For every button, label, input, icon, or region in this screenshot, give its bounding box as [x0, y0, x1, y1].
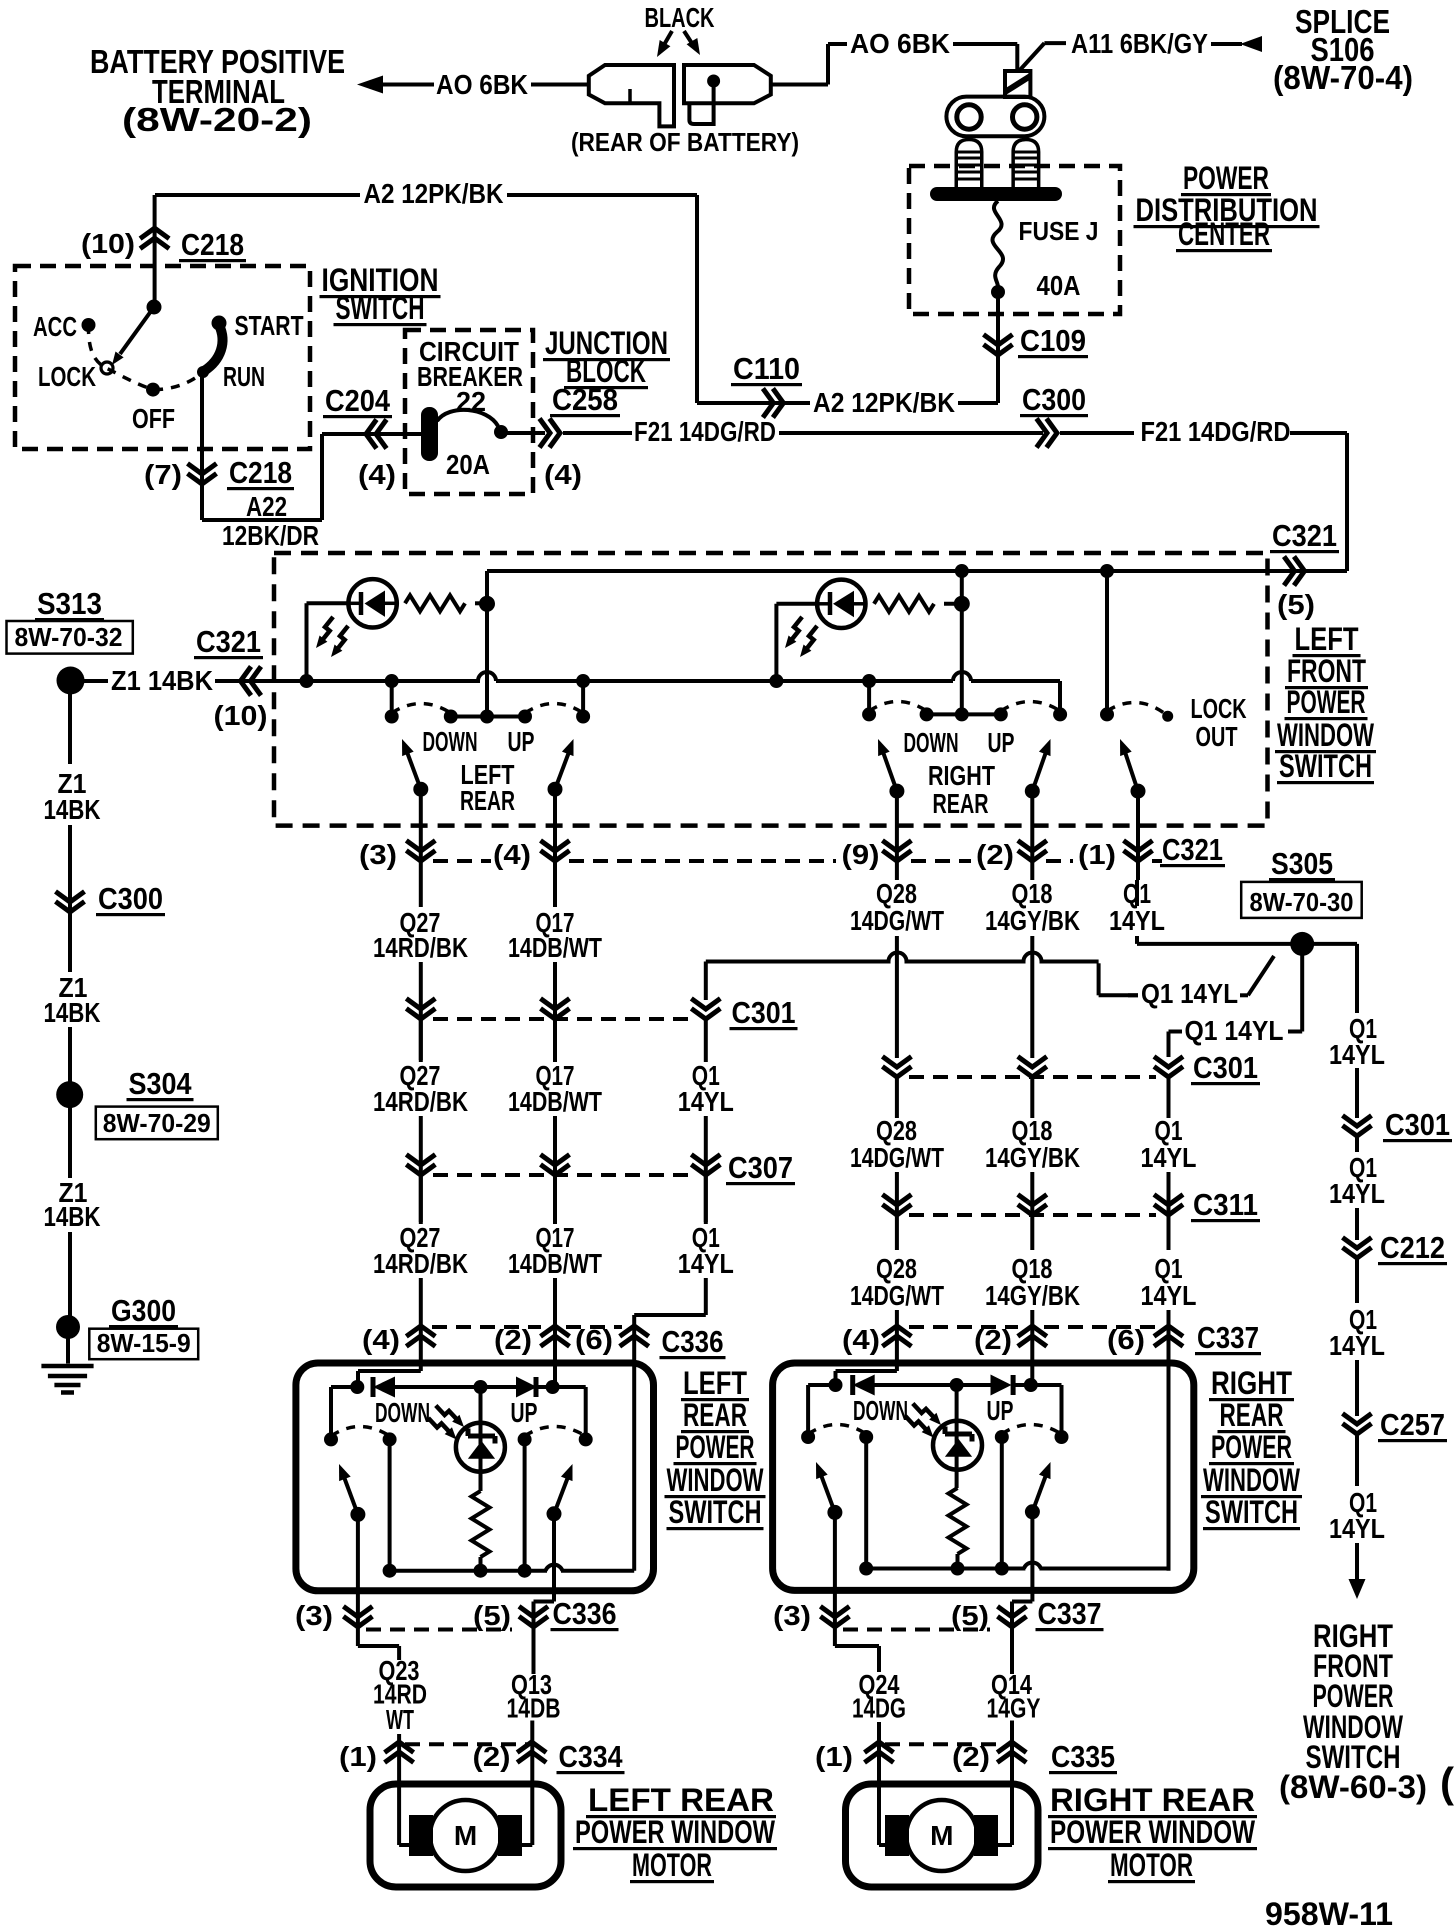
svg-text:LOCK: LOCK: [1191, 693, 1247, 724]
svg-text:14RD/BK: 14RD/BK: [373, 932, 468, 963]
svg-text:RIGHT: RIGHT: [1211, 1365, 1292, 1401]
svg-text:C321: C321: [196, 624, 261, 659]
svg-text:(3): (3): [359, 839, 397, 870]
svg-text:C301: C301: [732, 995, 796, 1030]
svg-text:8W-15-9: 8W-15-9: [97, 1328, 191, 1358]
svg-text:WINDOW: WINDOW: [667, 1462, 765, 1498]
svg-text:A11 6BK/GY: A11 6BK/GY: [1071, 28, 1208, 59]
svg-text:C212: C212: [1380, 1230, 1445, 1265]
svg-text:REAR: REAR: [460, 785, 515, 816]
svg-text:C300: C300: [1022, 382, 1086, 417]
svg-text:14DB/WT: 14DB/WT: [508, 1086, 602, 1117]
svg-text:C204: C204: [325, 383, 391, 418]
svg-text:14GY/BK: 14GY/BK: [985, 1280, 1080, 1311]
svg-text:UP: UP: [988, 727, 1015, 758]
svg-text:REAR: REAR: [1220, 1397, 1284, 1433]
svg-text:12BK/DR: 12BK/DR: [222, 520, 319, 551]
svg-text:14RD/BK: 14RD/BK: [373, 1248, 468, 1279]
svg-text:LOCK: LOCK: [38, 361, 96, 392]
svg-text:M: M: [454, 1820, 477, 1851]
svg-text:FUSE J: FUSE J: [1019, 216, 1099, 246]
svg-text:OUT: OUT: [1196, 721, 1238, 752]
svg-text:AO 6BK: AO 6BK: [436, 69, 528, 100]
svg-text:G300: G300: [111, 1293, 176, 1328]
svg-text:UP: UP: [987, 1395, 1014, 1426]
svg-text:WINDOW: WINDOW: [1203, 1462, 1301, 1498]
svg-text:SWITCH: SWITCH: [669, 1494, 762, 1530]
svg-text:POWER WINDOW: POWER WINDOW: [575, 1814, 776, 1850]
svg-text:14YL: 14YL: [1329, 1178, 1385, 1209]
svg-text:POWER: POWER: [1183, 160, 1269, 196]
svg-text:C311: C311: [1193, 1187, 1258, 1222]
svg-text:POWER: POWER: [1211, 1429, 1292, 1465]
svg-text:(5): (5): [951, 1600, 989, 1631]
svg-text:WT: WT: [386, 1704, 414, 1735]
svg-text:(2): (2): [976, 839, 1014, 870]
svg-text:DOWN: DOWN: [853, 1395, 908, 1426]
svg-text:(10): (10): [81, 228, 135, 259]
svg-text:14DB/WT: 14DB/WT: [508, 932, 602, 963]
svg-text:14BK: 14BK: [44, 794, 101, 825]
svg-text:8W-70-30: 8W-70-30: [1250, 887, 1354, 917]
svg-text:14DB: 14DB: [507, 1693, 561, 1724]
svg-text:AO 6BK: AO 6BK: [850, 28, 950, 59]
svg-text:POWER WINDOW: POWER WINDOW: [1050, 1814, 1256, 1850]
svg-text:SWITCH: SWITCH: [336, 290, 425, 326]
svg-text:C258: C258: [552, 382, 618, 417]
svg-text:14DG/WT: 14DG/WT: [850, 1142, 944, 1173]
svg-text:(7): (7): [144, 459, 182, 490]
svg-text:S313: S313: [37, 586, 102, 621]
svg-text:14GY: 14GY: [987, 1693, 1041, 1724]
svg-text:14YL: 14YL: [1141, 1142, 1197, 1173]
svg-text:C301: C301: [1193, 1050, 1258, 1085]
svg-text:40A: 40A: [1037, 270, 1081, 301]
svg-text:MOTOR: MOTOR: [632, 1847, 712, 1883]
svg-text:A22: A22: [246, 491, 287, 522]
svg-text:(4): (4): [544, 459, 582, 490]
svg-text:C335: C335: [1051, 1739, 1115, 1774]
svg-text:(6): (6): [575, 1324, 613, 1355]
svg-text:(9): (9): [842, 839, 880, 870]
svg-text:DOWN: DOWN: [423, 726, 478, 757]
svg-text:C336: C336: [553, 1596, 617, 1631]
svg-text:UP: UP: [508, 726, 535, 757]
svg-text:14BK: 14BK: [44, 997, 101, 1028]
svg-text:(5): (5): [1277, 589, 1315, 620]
svg-text:SWITCH: SWITCH: [1205, 1494, 1298, 1530]
svg-text:(8W-20-2): (8W-20-2): [122, 101, 312, 138]
svg-text:14DG/WT: 14DG/WT: [850, 905, 944, 936]
svg-text:LEFT REAR: LEFT REAR: [588, 1782, 774, 1818]
svg-text:(8W-60-3): (8W-60-3): [1279, 1769, 1427, 1805]
svg-text:RIGHT REAR: RIGHT REAR: [1050, 1782, 1255, 1818]
svg-text:14DB/WT: 14DB/WT: [508, 1248, 602, 1279]
svg-text:Q1 14YL: Q1 14YL: [1141, 978, 1238, 1009]
svg-text:14DG/WT: 14DG/WT: [850, 1280, 944, 1311]
svg-text:(4): (4): [362, 1324, 400, 1355]
svg-text:(1): (1): [815, 1741, 853, 1772]
svg-text:20A: 20A: [446, 449, 490, 480]
svg-text:14YL: 14YL: [1329, 1330, 1385, 1361]
svg-text:958W-11: 958W-11: [1265, 1896, 1393, 1928]
svg-text:C307: C307: [728, 1150, 793, 1185]
svg-text:(4): (4): [493, 839, 531, 870]
svg-text:DOWN: DOWN: [375, 1397, 430, 1428]
svg-text:DOWN: DOWN: [904, 727, 959, 758]
svg-text:UP: UP: [511, 1397, 538, 1428]
svg-text:(6): (6): [1107, 1324, 1145, 1355]
svg-text:C321: C321: [1162, 832, 1223, 867]
svg-text:C109: C109: [1020, 323, 1086, 358]
svg-text:CENTER: CENTER: [1178, 216, 1270, 252]
svg-text:(2): (2): [974, 1324, 1012, 1355]
svg-text:(10): (10): [214, 700, 268, 731]
svg-text:BLACK: BLACK: [645, 2, 715, 33]
svg-text:14GY/BK: 14GY/BK: [985, 905, 1080, 936]
svg-text:C336: C336: [662, 1324, 724, 1359]
svg-text:F21 14DG/RD: F21 14DG/RD: [1141, 416, 1291, 447]
svg-text:A2 12PK/BK: A2 12PK/BK: [364, 178, 504, 209]
svg-text:Q1 14YL: Q1 14YL: [1185, 1015, 1284, 1046]
svg-text:C321: C321: [1272, 518, 1337, 553]
svg-text:M: M: [930, 1820, 953, 1851]
svg-text:14GY/BK: 14GY/BK: [985, 1142, 1080, 1173]
svg-text:C300: C300: [98, 881, 163, 916]
svg-text:C110: C110: [733, 351, 800, 386]
svg-text:14YL: 14YL: [678, 1086, 734, 1117]
svg-text:LEFT: LEFT: [1295, 621, 1359, 657]
svg-text:C218: C218: [229, 455, 292, 490]
svg-text:LEFT: LEFT: [683, 1365, 747, 1401]
svg-text:14YL: 14YL: [678, 1248, 734, 1279]
svg-text:C218: C218: [181, 227, 244, 262]
svg-text:RUN: RUN: [223, 361, 265, 392]
svg-text:C334: C334: [559, 1739, 624, 1774]
svg-text:A2 12PK/BK: A2 12PK/BK: [813, 387, 955, 418]
svg-text:(4): (4): [358, 459, 396, 490]
svg-text:(2): (2): [494, 1324, 532, 1355]
svg-text:RIGHT: RIGHT: [928, 760, 995, 791]
svg-text:F21 14DG/RD: F21 14DG/RD: [634, 416, 776, 447]
svg-text:REAR: REAR: [683, 1397, 747, 1433]
svg-text:(1): (1): [1078, 839, 1116, 870]
svg-text:8W-70-29: 8W-70-29: [103, 1108, 211, 1138]
svg-text:S304: S304: [129, 1066, 193, 1101]
svg-text:POWER: POWER: [1287, 684, 1366, 720]
svg-text:14RD/BK: 14RD/BK: [373, 1086, 468, 1117]
svg-text:14BK: 14BK: [44, 1201, 101, 1232]
svg-text:OFF: OFF: [132, 403, 175, 434]
svg-text:MOTOR: MOTOR: [1110, 1847, 1193, 1883]
svg-text:8W-70-32: 8W-70-32: [15, 622, 123, 652]
svg-text:POWER: POWER: [676, 1429, 755, 1465]
svg-text:(4): (4): [842, 1324, 880, 1355]
svg-text:(8W-70-4): (8W-70-4): [1273, 59, 1413, 96]
svg-text:14DG: 14DG: [852, 1693, 906, 1724]
svg-text:14YL: 14YL: [1141, 1280, 1197, 1311]
svg-text:SWITCH: SWITCH: [1279, 748, 1372, 784]
svg-text:C257: C257: [1380, 1407, 1445, 1442]
svg-text:(3): (3): [295, 1600, 333, 1631]
svg-text:(2): (2): [473, 1741, 511, 1772]
svg-text:C337: C337: [1197, 1320, 1259, 1355]
svg-text:(1): (1): [339, 1741, 377, 1772]
svg-text:14YL: 14YL: [1329, 1513, 1385, 1544]
svg-text:C337: C337: [1038, 1596, 1102, 1631]
svg-text:(: (: [1440, 1759, 1454, 1806]
svg-text:(3): (3): [773, 1600, 811, 1631]
svg-text:REAR: REAR: [933, 788, 989, 819]
svg-text:START: START: [235, 310, 304, 341]
svg-text:Z1 14BK: Z1 14BK: [111, 665, 213, 696]
svg-text:S305: S305: [1271, 846, 1333, 881]
svg-text:(5): (5): [473, 1600, 511, 1631]
svg-text:(REAR OF BATTERY): (REAR OF BATTERY): [571, 127, 799, 157]
svg-text:ACC: ACC: [33, 311, 77, 342]
svg-text:14YL: 14YL: [1329, 1039, 1385, 1070]
svg-text:14YL: 14YL: [1109, 905, 1165, 936]
svg-text:C301: C301: [1385, 1107, 1450, 1142]
svg-text:(2): (2): [952, 1741, 990, 1772]
